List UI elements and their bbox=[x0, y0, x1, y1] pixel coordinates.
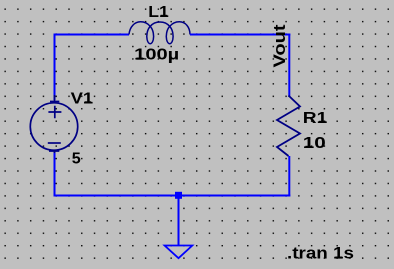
bottom pin crossbar bbox=[49, 150, 59, 153]
wire top-left horizontal (node from V1+ to L1) bbox=[54, 34, 129, 36]
ground symbol bbox=[165, 246, 193, 259]
svg-text:Vout: Vout bbox=[271, 24, 289, 68]
wire right vertical upper (corner to R1 top) bbox=[288, 34, 290, 98]
voltage source V1 bbox=[30, 95, 77, 153]
plus sign bbox=[48, 106, 61, 118]
resistor R1 bbox=[277, 96, 300, 157]
minus sign bbox=[48, 142, 61, 144]
wire left vertical upper (V1 top pin to corner) bbox=[54, 34, 56, 101]
svg-text:5: 5 bbox=[72, 151, 81, 168]
svg-text:100µ: 100µ bbox=[134, 47, 179, 64]
svg-text:.tran 1s: .tran 1s bbox=[287, 245, 354, 263]
inductor L1 bbox=[129, 22, 190, 44]
svg-text:V1: V1 bbox=[71, 90, 94, 107]
wire right vertical lower (R1 bottom to corner) bbox=[288, 156, 290, 197]
wire left vertical lower (V1 bottom pin to corner) bbox=[54, 152, 56, 197]
wire bottom horizontal bbox=[54, 195, 291, 197]
junction node bbox=[175, 192, 182, 199]
wire top-right horizontal (L1 to Vout corner) bbox=[190, 34, 290, 36]
ground wire bbox=[178, 196, 180, 246]
svg-text:L1: L1 bbox=[148, 4, 169, 21]
svg-text:R1: R1 bbox=[303, 110, 328, 127]
svg-text:10: 10 bbox=[303, 135, 326, 152]
top pin crossbar bbox=[50, 95, 59, 103]
